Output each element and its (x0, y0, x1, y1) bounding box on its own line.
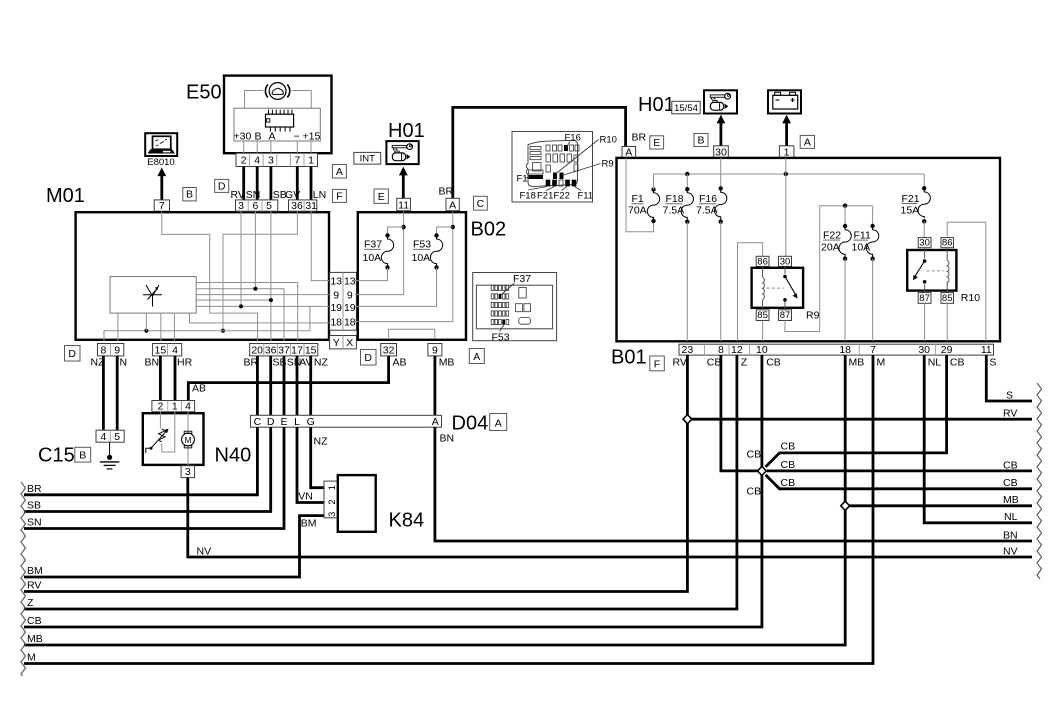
wire CB branch lower to right edge (766, 475, 1032, 489)
svg-text:E8010: E8010 (147, 157, 174, 168)
svg-text:7: 7 (294, 155, 300, 167)
svg-text:NL: NL (1004, 511, 1018, 523)
pin 11 box on B02 (397, 198, 411, 211)
svg-text:9: 9 (347, 290, 353, 302)
M01 inner receiver module box (110, 277, 196, 314)
svg-text:86: 86 (942, 238, 953, 249)
svg-text:D: D (267, 416, 275, 428)
arrow B02 pin11 to H01 (399, 167, 408, 199)
wire from symbol to IC box right (292, 91, 312, 109)
svg-text:4: 4 (185, 401, 191, 413)
wire CB pin10 down to left edge (24, 355, 762, 627)
ground symbol (100, 442, 120, 469)
svg-text:85: 85 (757, 310, 768, 321)
svg-text:− +15: − +15 (294, 130, 321, 142)
svg-text:3: 3 (268, 155, 274, 167)
svg-text:MB: MB (27, 633, 43, 645)
wire MB pin18 down to left edge (24, 355, 845, 645)
svg-text:F22: F22 (554, 191, 570, 202)
svg-text:K84: K84 (389, 510, 425, 532)
svg-text:Z: Z (27, 597, 34, 609)
wire MB B02 pin9 to D04 A (433, 356, 436, 415)
svg-text:10A: 10A (363, 252, 382, 264)
svg-text:+30: +30 (234, 130, 252, 142)
svg-text:37: 37 (278, 344, 290, 356)
svg-text:30: 30 (715, 146, 727, 158)
svg-text:87: 87 (780, 310, 791, 321)
svg-text:F37: F37 (364, 239, 382, 251)
node F (650, 356, 665, 371)
node C (474, 196, 488, 210)
module wire to row18 (190, 313, 332, 323)
wire pin31 to connector row13 (311, 211, 331, 280)
svg-text:R9: R9 (602, 159, 614, 170)
svg-text:E: E (280, 416, 287, 428)
remote transmitter symbol in E50 (265, 83, 289, 100)
arrow B01 pin1 to battery (782, 115, 791, 146)
svg-text:15A: 15A (901, 204, 920, 216)
pin 30 box on B01 (714, 146, 729, 159)
K84 pin strip 1 2 3 (324, 481, 338, 518)
svg-text:2: 2 (157, 401, 163, 413)
wire GV E50 pin7 to M01 pin36 (296, 167, 299, 200)
svg-text:1: 1 (327, 485, 338, 490)
svg-text:15: 15 (305, 344, 317, 356)
svg-text:8: 8 (718, 344, 724, 356)
internal row5 pin3 to connector row19 (196, 211, 331, 306)
wire R9 87 to F22/F11 feed (785, 206, 873, 332)
fuse F21 15A (901, 174, 931, 224)
wire S pin11 to right edge (986, 355, 1032, 401)
svg-text:19: 19 (330, 302, 342, 314)
torn edge right (1037, 383, 1042, 579)
junction dot pin36 wire to bottom bus (221, 329, 225, 333)
svg-text:BR: BR (632, 132, 647, 144)
junction diamond MB (841, 501, 850, 510)
svg-text:MB: MB (439, 357, 455, 369)
svg-text:RV: RV (1003, 407, 1017, 419)
svg-text:R9: R9 (806, 310, 820, 322)
wire M01 pin7 internal (162, 211, 258, 341)
wire M01 pin36 internal (223, 211, 297, 331)
svg-text:H01: H01 (638, 94, 675, 116)
fuse F37 10A (363, 233, 394, 269)
svg-text:E: E (378, 191, 385, 203)
svg-text:F16: F16 (699, 193, 717, 205)
wire SN E50 pin4 to M01 pin6 (256, 167, 259, 200)
wire RV E50 pin2 to M01 pin3 (242, 167, 245, 200)
wire NZ M01 pin8 to C15 (102, 356, 105, 430)
node D (215, 179, 229, 192)
svg-text:2: 2 (327, 499, 338, 504)
svg-text:A: A (432, 416, 439, 428)
svg-text:F18: F18 (666, 193, 684, 205)
svg-text:C: C (254, 416, 262, 428)
svg-text:F16: F16 (565, 133, 581, 144)
junction dot F22 feed (843, 204, 847, 208)
M01 top pin row 3 6 5 (236, 200, 278, 212)
svg-text:A: A (495, 417, 502, 429)
svg-text:87: 87 (919, 293, 930, 304)
svg-text:B: B (697, 135, 704, 147)
svg-text:F: F (654, 358, 660, 370)
junction diamond RV (683, 415, 692, 424)
svg-text:70A: 70A (628, 205, 647, 217)
svg-text:1: 1 (308, 155, 314, 167)
svg-text:RV: RV (673, 357, 687, 369)
svg-text:20A: 20A (821, 241, 840, 253)
svg-text:E50: E50 (186, 82, 222, 104)
wire pin1 to relay R9 30 (785, 158, 787, 256)
svg-text:D: D (218, 180, 226, 192)
svg-text:F1: F1 (632, 193, 644, 205)
relay R9 (752, 256, 820, 321)
component E50 box (224, 76, 332, 154)
svg-text:B: B (255, 130, 262, 142)
fuse F22 20A (821, 206, 851, 261)
wire BR left edge to D04 C (24, 427, 257, 495)
svg-text:F: F (336, 190, 342, 202)
motor symbol in N40 (182, 412, 195, 466)
svg-text:7.5A: 7.5A (663, 205, 685, 217)
svg-text:3: 3 (185, 466, 191, 478)
wire branch to fuse F53 (437, 227, 453, 234)
svg-text:BN: BN (440, 432, 455, 444)
svg-text:B02: B02 (471, 219, 507, 241)
wire CB branch upper to pin29 (766, 355, 947, 467)
svg-text:A: A (269, 130, 276, 142)
wire SB left edge to D04 D (24, 427, 271, 511)
svg-text:F11: F11 (578, 191, 594, 202)
svg-text:M: M (877, 357, 886, 369)
connector D04 box (251, 415, 442, 428)
svg-text:F22: F22 (823, 229, 841, 241)
svg-text:NZ: NZ (314, 436, 329, 448)
svg-text:19: 19 (344, 302, 356, 314)
internal row3 to connector row9 (196, 294, 331, 296)
battery icon box (768, 90, 801, 113)
svg-text:SB: SB (27, 500, 41, 512)
antenna symbol (143, 285, 162, 307)
svg-text:29: 29 (941, 344, 953, 356)
svg-text:E: E (653, 137, 660, 149)
svg-text:INT: INT (360, 154, 376, 165)
svg-text:CB: CB (766, 357, 781, 369)
junction dot pin3 row5 (239, 304, 243, 308)
B02 bottom pin 9 (428, 344, 442, 357)
junction dot pin6 row2 (253, 287, 257, 291)
svg-text:18: 18 (839, 344, 851, 356)
ignition key icon box (704, 90, 737, 113)
svg-text:20: 20 (251, 344, 263, 356)
fuse F53 10A (412, 233, 443, 269)
svg-text:4: 4 (100, 431, 106, 443)
svg-text:BM: BM (27, 565, 43, 577)
wire F22 to pin18 (844, 259, 846, 341)
wire NL pin30 to right edge (924, 355, 1032, 523)
svg-text:6: 6 (252, 200, 258, 212)
svg-text:9: 9 (333, 290, 339, 302)
fuse F53 highlighted cell (502, 319, 505, 324)
svg-text:15: 15 (155, 344, 167, 356)
wire from symbol to IC box left (245, 91, 264, 109)
svg-text:NV: NV (1003, 545, 1018, 557)
node B (183, 188, 196, 201)
wire BN D04 A to right edge (435, 427, 1032, 541)
wire SB E50 pin3 to M01 pin5 (269, 167, 272, 200)
junction dot module pin to bus (144, 329, 148, 333)
svg-text:30: 30 (918, 344, 930, 356)
svg-text:2: 2 (241, 155, 247, 167)
svg-text:R10: R10 (961, 292, 980, 304)
fuse F18 7.5A (663, 174, 694, 224)
svg-text:NZ: NZ (314, 357, 329, 369)
component B02 box (358, 212, 466, 340)
highlighted fuse cells (564, 145, 568, 151)
svg-text:85: 85 (942, 293, 953, 304)
M01 internal bottom bus (104, 306, 310, 341)
svg-text:NL: NL (928, 357, 942, 369)
wire F16 to pin8 (720, 222, 722, 341)
svg-text:CB: CB (707, 357, 722, 369)
svg-text:CB: CB (781, 459, 796, 471)
arrow B01 pin30 to ignition (717, 115, 726, 146)
svg-text:A: A (804, 137, 811, 149)
svg-text:8: 8 (100, 344, 106, 356)
svg-text:BN: BN (1003, 529, 1018, 541)
15/54 box (672, 101, 700, 114)
wire CB pin8 to junction (721, 355, 758, 471)
module pin wires down (118, 313, 174, 341)
svg-text:A: A (449, 199, 456, 211)
internal row4 pin5 (196, 211, 271, 341)
svg-text:5: 5 (266, 200, 272, 212)
wire R9 86 to pin12 (738, 243, 763, 341)
svg-text:C15: C15 (38, 445, 75, 467)
svg-text:4: 4 (254, 155, 260, 167)
wire VN D04 L to K84 pin2 (297, 427, 324, 502)
wire NV N40 pin3 to right edge (188, 478, 1032, 557)
pin A box on B02 (446, 198, 459, 211)
svg-text:36: 36 (265, 344, 277, 356)
svg-text:15/54: 15/54 (674, 103, 698, 114)
wire LN E50 pin1 to M01 pin31 (310, 167, 313, 200)
wire RV branch to right edge (687, 418, 1032, 421)
svg-text:M: M (27, 652, 36, 664)
component N40 box (143, 413, 204, 465)
wire branch to fuse F37 (388, 227, 404, 234)
N40 bottom pin 3 (181, 466, 195, 479)
svg-text:AB: AB (192, 383, 206, 395)
svg-text:10A: 10A (852, 241, 871, 253)
svg-text:B01: B01 (611, 347, 647, 369)
wire AB B02 pin32 to N40 pin4 (188, 356, 388, 401)
wire SN M01 pin37 to D04 E (283, 356, 286, 415)
wire B01 pinA to F1 (626, 158, 654, 232)
junction dot bus pin1 (784, 172, 788, 176)
svg-text:10A: 10A (412, 252, 431, 264)
svg-text:VN: VN (298, 491, 313, 503)
wire F37 to row13 (355, 268, 388, 281)
pin 1 box on B01 (779, 146, 794, 159)
connector Y X box (330, 336, 357, 350)
M01 bottom pin row 15 4 (153, 344, 182, 357)
svg-text:MB: MB (1003, 494, 1019, 506)
svg-text:13: 13 (330, 276, 342, 288)
node A (490, 414, 507, 431)
svg-text:F18: F18 (520, 191, 536, 202)
wire AV M01 pin17 to D04 L (296, 356, 299, 415)
C15 pin row 4 5 (96, 430, 124, 443)
internal supply bus (654, 174, 925, 190)
svg-text:D: D (364, 352, 372, 364)
svg-text:F11: F11 (854, 229, 871, 241)
IC chip symbol (266, 110, 294, 132)
wire CB branch middle to right edge (767, 469, 1032, 472)
svg-text:MB: MB (849, 357, 865, 369)
fuse F11 10A (852, 206, 879, 261)
wire MB branch to right edge (845, 504, 1032, 507)
wire Z pin12 down to left edge (24, 355, 737, 609)
B01 bottom pin row (679, 344, 994, 356)
svg-text:F53: F53 (413, 239, 431, 251)
svg-text:30: 30 (780, 256, 791, 267)
svg-text:M01: M01 (46, 185, 85, 207)
internal row1 to pin17 (196, 283, 298, 342)
wire HR M01 pin4 to N40 pin1 (174, 356, 177, 401)
wire BR M01 pin20 to D04 C (256, 356, 259, 415)
node D right of YX (361, 350, 377, 366)
svg-text:23: 23 (682, 344, 694, 356)
svg-text:5: 5 (114, 431, 120, 443)
wire B02 pin11 to row9 (355, 211, 404, 294)
svg-text:C: C (477, 198, 485, 210)
svg-text:30: 30 (919, 238, 930, 249)
svg-text:11: 11 (398, 199, 409, 211)
B02 bottom pin 32 (381, 344, 397, 357)
wire F18 to pin23 (686, 222, 688, 341)
svg-text:31: 31 (305, 200, 317, 212)
svg-text:F21: F21 (902, 193, 920, 205)
wire SN left edge to D04 E (24, 427, 284, 528)
fuse F37 highlighted cell (499, 294, 502, 299)
svg-text:BN: BN (145, 357, 160, 369)
svg-text:S: S (1006, 389, 1013, 401)
svg-text:3: 3 (327, 512, 338, 517)
node A under B02 (469, 349, 484, 364)
svg-text:9: 9 (432, 344, 438, 356)
wire R10 87 to pin30 (924, 303, 926, 341)
wire RV pin23 down (24, 355, 687, 591)
wires module to pin row (244, 141, 311, 153)
svg-text:L: L (294, 416, 300, 428)
wire R10 85 to pin29 (946, 303, 948, 341)
svg-text:CB: CB (781, 477, 796, 489)
relay R10 (907, 238, 980, 304)
svg-text:CB: CB (1003, 477, 1018, 489)
arrow M01 pin7 to E8010 (157, 168, 166, 200)
fuse F16 7.5A (696, 158, 727, 224)
wire BN M01 pin15 to N40 pin2 (159, 356, 162, 401)
svg-text:1: 1 (172, 401, 178, 413)
svg-text:13: 13 (344, 276, 356, 288)
svg-text:BR: BR (27, 483, 42, 495)
svg-text:7: 7 (159, 200, 165, 212)
svg-text:A: A (336, 166, 343, 178)
svg-text:G: G (307, 416, 315, 428)
wire NZ D04 G to K84 pin1 (311, 427, 324, 488)
wire F11 to pin7 (872, 259, 874, 341)
svg-text:Z: Z (741, 357, 748, 369)
node B (75, 447, 91, 462)
wire BR from B02 pin A up and over to B01 pin A (453, 107, 626, 198)
svg-text:4: 4 (172, 344, 178, 356)
svg-text:F53: F53 (492, 331, 510, 343)
svg-text:D04: D04 (452, 413, 489, 435)
svg-text:A: A (473, 351, 480, 363)
H01 key-actuator icon box (386, 141, 418, 164)
E50 inner module box (234, 108, 320, 141)
wire BM left edge to K84 pin3 (24, 516, 324, 577)
node A (332, 165, 346, 179)
node E (374, 189, 388, 203)
wire NZ M01 pin15 to D04 G (309, 356, 312, 415)
svg-text:CB: CB (950, 357, 965, 369)
svg-text:H01: H01 (388, 120, 425, 142)
wire N M01 pin9 to C15 (116, 356, 119, 430)
svg-text:11: 11 (981, 344, 992, 356)
wire SB M01 pin36 to D04 D (269, 356, 272, 415)
M01 bottom pin row 20 36 37 17 15 (250, 344, 318, 357)
svg-text:CB: CB (1003, 459, 1018, 471)
sensor symbol in N40 (146, 412, 175, 453)
svg-text:18: 18 (344, 317, 356, 329)
svg-text:F1: F1 (517, 174, 528, 185)
E8010 computer icon (145, 133, 177, 156)
svg-text:F37: F37 (513, 273, 531, 285)
pin 7 box on M01 (154, 200, 169, 212)
svg-text:10: 10 (756, 344, 768, 356)
fuse F1 70A (628, 187, 660, 223)
svg-text:AB: AB (393, 357, 407, 369)
svg-text:NV: NV (197, 545, 212, 557)
wire F21 to R10 30 (923, 221, 925, 237)
B02 internal link pin32 to pin9 (389, 329, 435, 339)
svg-text:32: 32 (383, 344, 395, 356)
svg-text:B: B (186, 189, 193, 201)
svg-text:SN: SN (27, 517, 42, 529)
svg-text:18: 18 (330, 317, 342, 329)
junction dot bus F18 (685, 172, 689, 176)
node F (332, 189, 346, 202)
svg-text:D: D (68, 348, 76, 360)
component M01 box (76, 212, 329, 340)
svg-text:12: 12 (731, 344, 743, 356)
svg-text:7: 7 (870, 344, 876, 356)
torn edge left (21, 482, 26, 676)
svg-text:9: 9 (114, 344, 120, 356)
svg-text:S: S (989, 357, 996, 369)
svg-text:RV: RV (27, 580, 41, 592)
connector 13 9 19 18 box (330, 272, 357, 330)
node E (650, 136, 664, 149)
E50 pin row 2 4 3 7 1 (236, 153, 318, 167)
svg-text:17: 17 (291, 344, 303, 356)
svg-text:N40: N40 (215, 445, 252, 467)
internal row2 pin6 pin37 (196, 211, 284, 341)
wire B02 pinA to row18 (355, 211, 453, 321)
svg-text:3: 3 (238, 200, 244, 212)
